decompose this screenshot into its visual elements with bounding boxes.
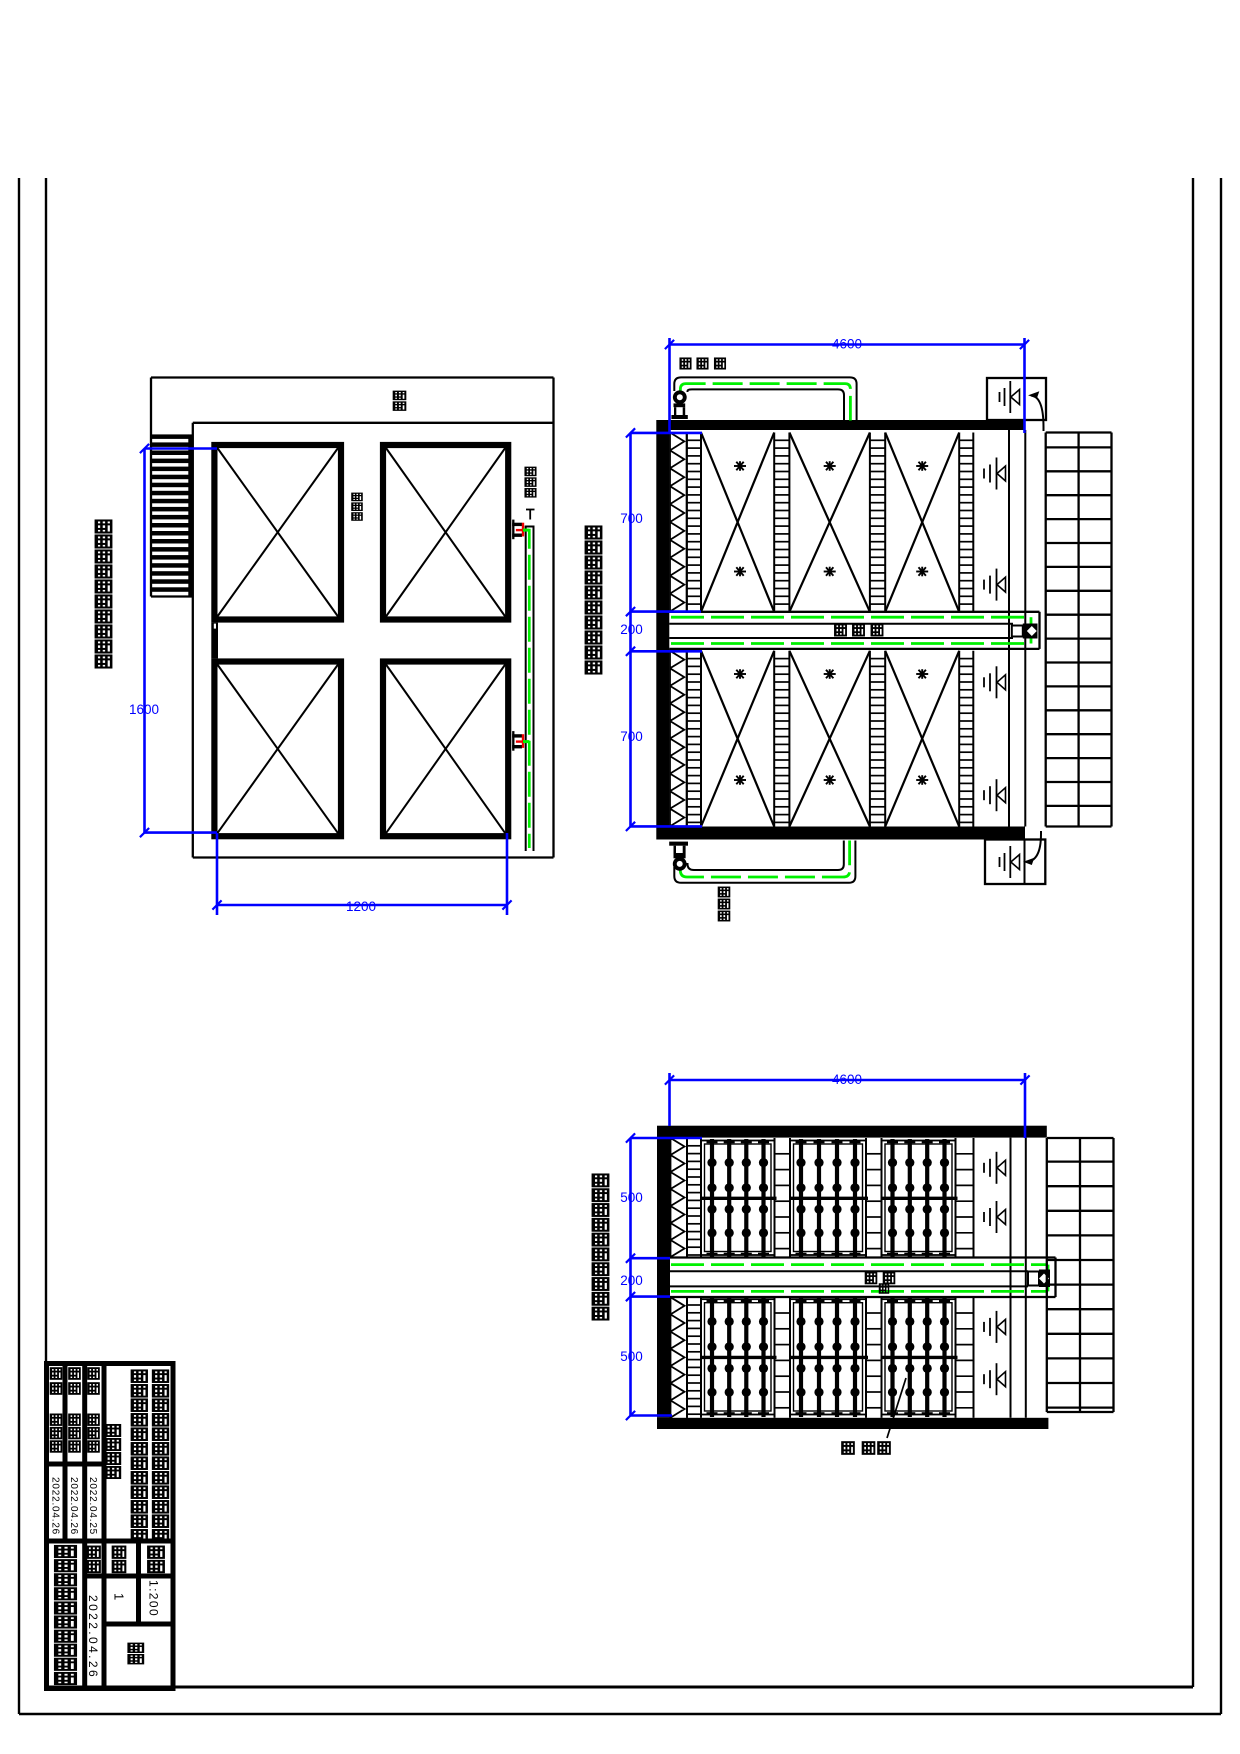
ladder column: [686, 1138, 688, 1257]
cell shuliang (quantity): [113, 1546, 126, 1557]
aeration pipe panel: [701, 1299, 775, 1414]
inner vertical line after zigzag: [686, 433, 688, 612]
zigzag baffle strip: [670, 433, 684, 612]
left view right vertical lines: [1010, 1138, 1012, 1418]
label bushuiqu (distribution channel): [352, 493, 362, 500]
curved flow arrow bottom: [1026, 831, 1041, 862]
ladder column: [686, 651, 688, 827]
bottom pipe valve: [669, 842, 688, 846]
cell bili (scale): [148, 1546, 163, 1557]
water level symbols front: [983, 469, 985, 479]
aeration pipe panel: [701, 1141, 775, 1256]
channel label (aeration main): [835, 624, 846, 635]
left view title: [593, 1174, 608, 1186]
project title line 1: Foshan Huacai carton packaging printing factory: [153, 1370, 168, 1382]
plan branch valve fitting: [512, 520, 514, 540]
plan main pipe (vertical, green dashed): [525, 527, 527, 852]
dimension 1200 (horizontal): [217, 904, 507, 907]
svg-text:1: 1: [112, 1593, 127, 1600]
pool cell 4 (bottom-right): [383, 662, 508, 837]
left channel label: [866, 1273, 877, 1284]
title col: shenhe (check): [51, 1368, 62, 1379]
ladder column: [865, 1138, 867, 1257]
aeration pipe panel: [790, 1299, 866, 1414]
ladder column: [773, 651, 775, 827]
sheet number: tu si (fig 4): [129, 1643, 143, 1652]
zigzag baffle strip: [670, 651, 684, 827]
school name: Beijing Institute of Technology Zhuhai: [56, 1546, 76, 1557]
pool cell 1 (top-left): [214, 445, 341, 620]
plan view title: [96, 520, 111, 532]
project title line 3: tank calculation drawing: [106, 1425, 120, 1436]
dimensions 700/200/700 front: [629, 433, 632, 827]
svg-text:2022.04.26: 2022.04.26: [86, 1595, 100, 1679]
svg-text:4600: 4600: [832, 1072, 862, 1087]
plan view inner tank wall: [193, 422, 554, 424]
ladder column: [958, 433, 960, 612]
ladder column: [958, 651, 960, 827]
front view tank top wall: [656, 420, 1025, 430]
curved flow arrow top: [1031, 396, 1044, 432]
ladder column: [773, 433, 775, 612]
svg-text:200: 200: [620, 1273, 643, 1288]
dimension 1600 (vertical): [143, 449, 146, 833]
svg-text:2022.04.26: 2022.04.26: [68, 1477, 79, 1535]
top outlet box: [987, 378, 1046, 420]
left view tank left wall: [657, 1138, 670, 1418]
ladder column: [955, 1297, 957, 1418]
title col: sheji (design): [88, 1368, 99, 1379]
media X panel: [701, 433, 774, 612]
media X panel: [789, 651, 870, 827]
left channel end connector: [1028, 1272, 1039, 1286]
ladder column: [774, 1138, 776, 1257]
sheet border: [18, 178, 20, 1714]
dimension 4600 left view: [670, 1079, 1026, 1082]
date 2022.04.26: [50, 1477, 61, 1535]
date 2022.04.25: [87, 1477, 98, 1535]
svg-text:500: 500: [620, 1349, 643, 1364]
media X panel: [885, 433, 959, 612]
svg-text:200: 200: [620, 622, 643, 637]
left central channel: [670, 1256, 1056, 1258]
ladder column: [869, 433, 871, 612]
zigzag baffle strip: [671, 1138, 685, 1257]
wall link between cell1 and cell3: [211, 623, 218, 659]
bottom drain pipe: [674, 841, 855, 883]
left view tank top wall: [657, 1126, 1047, 1138]
date value 2022.04.26: [86, 1595, 100, 1679]
project title line 2: wastewater treatment process bio-contact oxidation: [132, 1370, 147, 1382]
svg-text:4600: 4600: [832, 337, 862, 352]
svg-text:700: 700: [620, 729, 643, 744]
top feed pipe: [674, 377, 856, 420]
ladder column: [686, 1297, 688, 1418]
svg-text:1:200: 1:200: [147, 1580, 161, 1617]
right side vertical lines: [1008, 430, 1010, 827]
inner vertical line after zigzag: [686, 1138, 688, 1258]
ladder column: [865, 1297, 867, 1418]
dimension 4600 front: [670, 343, 1025, 346]
front central distribution channel: [669, 611, 1039, 613]
quantity value 1: [112, 1593, 127, 1600]
title block frame: [47, 1364, 174, 1689]
left view tank bottom wall: [657, 1418, 1048, 1429]
label shuiqu (water channel): [394, 391, 406, 399]
svg-text:500: 500: [620, 1190, 643, 1205]
aeration branch pipe leader: [887, 1378, 906, 1438]
svg-text:1600: 1600: [129, 702, 159, 717]
ladder column: [686, 433, 688, 612]
front view title: [586, 526, 601, 538]
aeration pipe panel: [882, 1299, 956, 1414]
leader line to main pipe: [529, 510, 531, 520]
media X panel: [789, 433, 870, 612]
aeration pipe panel: [882, 1141, 956, 1256]
svg-text:2022.04.26: 2022.04.26: [50, 1477, 61, 1535]
ladder column: [955, 1138, 957, 1257]
front view tank left wall: [656, 430, 669, 827]
media fill marks: [734, 465, 746, 467]
channel end connector: [1012, 626, 1023, 637]
pool cell 3 (bottom-left): [214, 662, 341, 837]
label zhuganguan top: [680, 358, 690, 368]
ladder column: [869, 651, 871, 827]
label aeration branch pipe: [842, 1442, 854, 1454]
media X panel: [701, 651, 774, 827]
plan branch valve fitting: [512, 731, 514, 751]
brick support grid left: [1046, 1138, 1048, 1412]
top pipe valve: [673, 390, 687, 404]
brick support grid front: [1045, 433, 1047, 827]
ladder column: [774, 1297, 776, 1418]
plan view outer channel walls: [151, 376, 554, 378]
zigzag baffle strip: [671, 1297, 685, 1417]
svg-text:1200: 1200: [346, 899, 376, 914]
media X panel: [885, 651, 959, 827]
svg-text:2022.04.25: 2022.04.25: [87, 1477, 98, 1535]
svg-text:700: 700: [620, 511, 643, 526]
water level symbols left view: [983, 1163, 985, 1173]
label zhuganguan bottom: [719, 887, 730, 896]
title block inner lines: [63, 1361, 68, 1541]
aeration pipe panel: [790, 1141, 866, 1256]
front view tank bottom wall: [656, 827, 1025, 840]
pool cell 2 (top-right): [383, 445, 508, 620]
scale value 1:200: [147, 1580, 161, 1617]
title col: zhitu (draft): [69, 1368, 80, 1379]
dimensions 500/200/500 left view: [629, 1138, 632, 1416]
inlet screen comb: [152, 434, 189, 439]
cell riqi (date): [87, 1546, 100, 1557]
plan label zhuganguan (main pipe): [525, 467, 535, 475]
bottom outlet box: [985, 840, 1045, 885]
date 2022.04.26: [68, 1477, 79, 1535]
